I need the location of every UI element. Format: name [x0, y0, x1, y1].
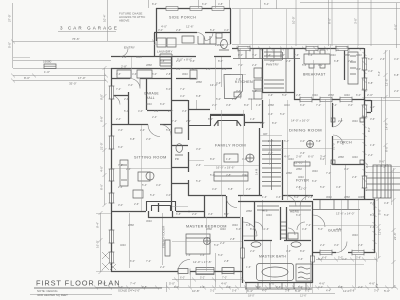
svg-text:6'-0": 6'-0" [394, 24, 398, 30]
wall guest right [374, 199, 376, 253]
svg-text:4040: 4040 [352, 155, 358, 159]
svg-text:14'-0" x 16'-0": 14'-0" x 16'-0" [291, 119, 309, 123]
right wall hatch [236, 47, 377, 254]
closet rods his hers [257, 206, 311, 210]
door sitting2 [160, 125, 171, 136]
svg-text:14'-0": 14'-0" [385, 122, 389, 130]
steps right [373, 165, 391, 198]
svg-text:6'-0": 6'-0" [118, 145, 123, 149]
bath walls emphasize [112, 48, 365, 283]
dim inner verticals [130, 165, 377, 287]
svg-text:3'-0": 3'-0" [354, 18, 358, 24]
wall pantry left [262, 48, 264, 93]
svg-text:5'-0": 5'-0" [210, 173, 215, 177]
entry steps bottom [245, 283, 312, 289]
vanity sinks [251, 242, 301, 247]
dim ticks left verticals [99, 66, 107, 274]
conline bottom v [179, 272, 313, 293]
svg-text:6'-8": 6'-8" [338, 285, 343, 289]
svg-text:7'-2": 7'-2" [172, 119, 177, 123]
door hers closet [297, 222, 305, 230]
dim top right border [300, 2, 400, 4]
svg-text:2'-6": 2'-6" [268, 139, 273, 143]
wall family bottom [188, 195, 262, 197]
conline v sitting [141, 125, 143, 211]
svg-text:5'-4": 5'-4" [377, 71, 381, 76]
family table [224, 52, 358, 162]
wall garage back long [111, 68, 232, 70]
title underline [34, 287, 162, 289]
wall hall master top [188, 196, 313, 218]
svg-text:2'-4": 2'-4" [118, 185, 123, 189]
dim vline garage left [12, 3, 14, 68]
door sitting [148, 125, 160, 137]
door porch [333, 135, 343, 145]
door family hall [226, 197, 237, 208]
svg-text:2'-6": 2'-6" [286, 59, 291, 63]
wall closet shelfcol [281, 207, 287, 240]
svg-text:2'-0": 2'-0" [212, 103, 217, 107]
dim ticks bottom left [94, 286, 159, 290]
stair treads [262, 139, 281, 190]
svg-text:6'-2": 6'-2" [305, 289, 310, 293]
svg-text:3040: 3040 [182, 72, 188, 76]
svg-text:35'-0": 35'-0" [69, 82, 77, 86]
svg-text:4'-6": 4'-6" [384, 201, 389, 205]
svg-text:8'-0": 8'-0" [218, 59, 223, 63]
svg-text:6'-0": 6'-0" [356, 93, 361, 97]
porch columns [331, 118, 364, 164]
svg-text:2'-0": 2'-0" [348, 59, 353, 63]
svg-text:2'-6": 2'-6" [294, 53, 299, 57]
svg-text:6'-8": 6'-8" [228, 187, 233, 191]
svg-text:4'-0": 4'-0" [368, 69, 373, 73]
svg-text:2'-8": 2'-8" [166, 72, 171, 76]
svg-text:5'-0": 5'-0" [294, 195, 299, 199]
svg-text:21'-0": 21'-0" [100, 142, 104, 150]
window at y=8.5 x=166 [166, 7, 178, 11]
svg-text:4'-4": 4'-4" [326, 289, 331, 293]
window at x=364.5 y=58 [363, 58, 367, 70]
svg-text:16'-0": 16'-0" [332, 142, 336, 150]
dim terrace bottom [232, 44, 400, 46]
wall bath block left [242, 217, 244, 283]
svg-text:6'-0": 6'-0" [308, 155, 314, 159]
svg-text:3'-0": 3'-0" [222, 67, 227, 71]
svg-text:4'-6": 4'-6" [226, 285, 231, 289]
guest closet row [313, 200, 360, 210]
svg-text:4'-0": 4'-0" [180, 94, 185, 98]
svg-text:2'-4": 2'-4" [152, 115, 157, 119]
svg-text:5'-4": 5'-4" [368, 57, 373, 61]
svg-text:3040: 3040 [330, 53, 336, 57]
conline h extra1 [172, 206, 188, 208]
svg-text:PORCH: PORCH [337, 141, 352, 145]
svg-text:5'-4": 5'-4" [150, 193, 155, 197]
svg-text:10'-4": 10'-4" [103, 14, 107, 22]
svg-text:2868: 2868 [268, 103, 274, 107]
svg-text:4'-6": 4'-6" [200, 253, 205, 257]
svg-text:1'-6": 1'-6" [262, 195, 267, 199]
wall side porch top [156, 8, 231, 10]
svg-text:8'-0": 8'-0" [244, 103, 249, 107]
svg-text:2'-6": 2'-6" [196, 163, 201, 167]
svg-text:4'-6": 4'-6" [216, 81, 221, 85]
svg-text:2868: 2868 [344, 53, 350, 57]
wall kitchen left upper [230, 8, 232, 44]
svg-text:2'-8": 2'-8" [308, 195, 313, 199]
svg-text:16'-0": 16'-0" [96, 240, 100, 248]
svg-text:LAUNDRY: LAUNDRY [157, 50, 173, 54]
wall hall right of dressing [172, 95, 189, 211]
window at y=252.5 x=352 [352, 251, 364, 255]
deck planks right [366, 178, 400, 190]
shower lines [298, 267, 310, 279]
svg-text:3'-0": 3'-0" [118, 128, 123, 132]
svg-text:4'-0": 4'-0" [262, 289, 267, 293]
island sink [234, 92, 241, 97]
svg-text:3'-6": 3'-6" [370, 117, 375, 121]
svg-text:3'-6": 3'-6" [226, 103, 231, 107]
svg-text:2'-8": 2'-8" [230, 237, 235, 241]
svg-text:5'-4": 5'-4" [302, 63, 307, 67]
wall stair right [282, 140, 284, 200]
dim row1 under garage [13, 75, 106, 77]
svg-text:3'-0": 3'-0" [344, 167, 349, 171]
dim bottom chain left [96, 287, 165, 289]
svg-text:3'-6": 3'-6" [300, 151, 305, 155]
wall right exterior [364, 48, 366, 199]
powder sink [216, 33, 222, 38]
svg-text:3040: 3040 [242, 173, 248, 177]
svg-text:2'-0": 2'-0" [176, 59, 181, 63]
svg-text:11'-0": 11'-0" [378, 228, 382, 235]
wall closet mid [111, 79, 171, 125]
wall pantry bottom [262, 92, 294, 94]
svg-text:12'-6": 12'-6" [385, 78, 389, 86]
svg-text:2'-0": 2'-0" [246, 187, 251, 191]
window at x=242.5 y=248 [241, 248, 245, 258]
svg-text:2'-8": 2'-8" [296, 185, 301, 189]
svg-text:4'-0": 4'-0" [318, 63, 323, 67]
door entry [120, 49, 128, 57]
svg-text:SITTING ROOM: SITTING ROOM [134, 156, 167, 160]
svg-text:6'-8": 6'-8" [246, 223, 251, 227]
window at y=99.5 x=320 [320, 98, 332, 102]
conline h dining low [262, 148, 332, 150]
svg-text:2'-0": 2'-0" [250, 249, 255, 253]
wall guest bottom [313, 252, 375, 254]
svg-text:2868: 2868 [128, 223, 134, 227]
svg-text:6'-0": 6'-0" [130, 259, 135, 263]
door guest [313, 215, 325, 227]
conline v family [222, 110, 244, 196]
svg-text:5'-6": 5'-6" [378, 209, 382, 215]
door mud hall [197, 33, 205, 41]
wall entry hall left [154, 33, 156, 57]
svg-text:3'-0": 3'-0" [118, 203, 123, 207]
wall porch bottom [332, 164, 364, 166]
window at x=111.5 y=86 [110, 86, 114, 99]
svg-text:8'-0": 8'-0" [210, 157, 215, 161]
wall kitchen inner [188, 109, 210, 111]
svg-text:2'-6": 2'-6" [134, 202, 139, 206]
svg-text:5'-4": 5'-4" [284, 139, 289, 143]
svg-text:6'-0": 6'-0" [166, 87, 171, 91]
svg-text:3'-0": 3'-0" [128, 83, 133, 87]
dim garage width line [13, 41, 154, 43]
conline h mud [154, 44, 231, 46]
svg-text:5'-8": 5'-8" [350, 289, 355, 293]
svg-text:5'-4": 5'-4" [308, 53, 313, 57]
svg-text:4040: 4040 [120, 243, 126, 247]
garage steps [160, 54, 172, 66]
dim ticks bottom chain [166, 286, 398, 290]
svg-text:5'-4": 5'-4" [166, 128, 171, 132]
svg-text:HALL: HALL [146, 96, 155, 100]
wall dressing row top [111, 78, 196, 80]
svg-text:7'-2": 7'-2" [252, 53, 257, 57]
wall bath bottom bay [245, 282, 312, 284]
svg-text:2'-8": 2'-8" [224, 259, 229, 263]
x-marks lower left wall [102, 252, 116, 270]
svg-text:4040: 4040 [356, 53, 362, 57]
svg-text:8'-6": 8'-6" [328, 18, 332, 24]
conline right deck v [374, 165, 392, 210]
breakfast table [304, 50, 330, 68]
conline v guest [342, 200, 359, 252]
dim inner verticals 2 [197, 57, 346, 200]
svg-text:5'-0": 5'-0" [218, 253, 223, 257]
svg-text:3'-0": 3'-0" [280, 53, 285, 57]
window at y=252.5 x=320 [320, 251, 332, 255]
window at x=111.5 y=193 [110, 193, 114, 203]
conline h family [204, 165, 259, 167]
wall closet his left [254, 201, 256, 240]
wall master bottom [111, 271, 243, 273]
fan master [204, 238, 211, 245]
svg-text:5'-2": 5'-2" [200, 276, 205, 280]
svg-text:2'-6": 2'-6" [126, 167, 131, 171]
conline v dining b [325, 99, 327, 165]
conline h sitting [111, 168, 171, 170]
svg-text:2868: 2868 [328, 93, 334, 97]
svg-text:2'-0": 2'-0" [367, 93, 373, 97]
svg-text:FIRST FLOOR PLAN: FIRST FLOOR PLAN [36, 279, 121, 288]
svg-text:4'-6": 4'-6" [132, 72, 137, 76]
svg-text:6'-8": 6'-8" [130, 137, 135, 141]
tick title chain [166, 282, 168, 292]
svg-text:2'-8": 2'-8" [232, 97, 237, 101]
svg-text:6'-0": 6'-0" [236, 227, 241, 231]
window jamb ticks [109, 46, 368, 275]
svg-text:4'-6": 4'-6" [298, 257, 303, 261]
svg-text:7'-2": 7'-2" [326, 171, 331, 175]
powder toilet [219, 39, 229, 50]
svg-text:21'-6": 21'-6" [393, 232, 397, 240]
conline top kitchen v [253, 9, 287, 48]
underline garage label [58, 31, 116, 33]
svg-text:3040: 3040 [312, 93, 318, 97]
svg-text:7'-4": 7'-4" [130, 282, 136, 286]
svg-text:6'-8": 6'-8" [394, 73, 399, 77]
dim ticks garage rows [11, 40, 156, 83]
svg-text:6'-8": 6'-8" [100, 116, 104, 122]
svg-text:2'-8": 2'-8" [336, 227, 341, 231]
svg-text:12'-0" x 17'-8": 12'-0" x 17'-8" [193, 260, 211, 264]
dim vline master-left [100, 213, 102, 272]
svg-text:1'-6": 1'-6" [264, 227, 269, 231]
svg-text:6'-0": 6'-0" [320, 157, 325, 161]
dim row2 under garage [13, 80, 106, 82]
interior fixtures [44, 33, 400, 289]
svg-text:2868: 2868 [146, 63, 152, 67]
svg-text:4'-0": 4'-0" [166, 193, 171, 197]
svg-text:9'-6": 9'-6" [379, 160, 385, 164]
dim left wing horiz [13, 60, 111, 62]
svg-text:8'-0": 8'-0" [224, 212, 229, 216]
conline h guest [313, 225, 374, 227]
butler shelves [264, 80, 284, 88]
door arcs [111, 33, 347, 272]
svg-text:7'-2": 7'-2" [190, 67, 195, 71]
svg-text:4'-0": 4'-0" [156, 183, 161, 187]
family sofa [214, 172, 248, 181]
svg-text:7'-2": 7'-2" [316, 103, 321, 107]
door powder [205, 33, 213, 41]
conline v master [206, 217, 208, 271]
svg-text:4'-6": 4'-6" [268, 112, 273, 116]
walls [111, 8, 375, 283]
wall sitting bottom [111, 211, 190, 213]
window at y=271.5 x=196 [196, 270, 214, 274]
svg-text:PWDR: PWDR [215, 43, 224, 47]
conline h kitchen2 [231, 74, 246, 76]
svg-text:2'-4": 2'-4" [252, 63, 257, 67]
svg-text:MASTER BATH: MASTER BATH [259, 255, 286, 259]
svg-text:FRENCH DOOR: FRENCH DOOR [162, 225, 166, 248]
svg-text:3'-0": 3'-0" [256, 285, 261, 289]
dim terrace top edge [232, 8, 400, 10]
svg-text:5'-0": 5'-0" [384, 289, 390, 293]
svg-text:6'-0": 6'-0" [176, 67, 181, 71]
wall right bump [364, 100, 372, 113]
dim bottom chain [165, 287, 396, 289]
svg-text:SIDE PORCH: SIDE PORCH [169, 16, 196, 20]
svg-text:3'-0": 3'-0" [196, 147, 201, 151]
svg-text:PR: PR [175, 157, 179, 161]
svg-text:5'-4": 5'-4" [210, 28, 215, 32]
svg-text:FOYER: FOYER [296, 179, 309, 183]
svg-text:3040: 3040 [312, 169, 318, 173]
svg-text:8'-0": 8'-0" [208, 117, 213, 121]
foyer case [294, 162, 310, 166]
svg-text:5'-4": 5'-4" [124, 109, 129, 113]
window at y=48.5 x=336 [336, 47, 348, 51]
conline v kitchen [240, 48, 242, 99]
windows [110, 7, 367, 274]
svg-text:5'-6": 5'-6" [232, 289, 237, 293]
wall entry hall bottom [111, 56, 154, 58]
svg-text:5'-0": 5'-0" [216, 97, 221, 101]
svg-text:27'-0": 27'-0" [8, 14, 12, 22]
conline v garage hall [131, 57, 133, 78]
door master entry [243, 222, 257, 236]
svg-text:5'-4": 5'-4" [196, 179, 201, 183]
svg-text:5'-0": 5'-0" [384, 213, 389, 217]
svg-text:8'-0": 8'-0" [252, 89, 257, 93]
wall sitting top [111, 124, 172, 126]
dim garage leaders [13, 68, 111, 70]
svg-text:4040: 4040 [220, 227, 226, 231]
svg-text:FAMILY ROOM: FAMILY ROOM [215, 143, 246, 148]
svg-text:2'-8": 2'-8" [142, 285, 147, 289]
svg-text:3'-8": 3'-8" [285, 289, 290, 293]
svg-text:6'-8": 6'-8" [154, 109, 159, 113]
svg-text:3'-0": 3'-0" [270, 59, 275, 63]
dim ticks right margin [377, 50, 396, 289]
svg-text:4'-6": 4'-6" [276, 195, 281, 199]
dim bottom tier2 [215, 293, 335, 295]
svg-text:4'-6": 4'-6" [242, 157, 247, 161]
svg-text:16'-0" x 19'-6": 16'-0" x 19'-6" [216, 166, 234, 170]
master tub [257, 264, 294, 281]
svg-text:6'-8": 6'-8" [334, 59, 339, 63]
door garage entry [130, 79, 140, 89]
svg-text:2'-4": 2'-4" [186, 119, 191, 123]
svg-text:2'-6": 2'-6" [176, 28, 181, 32]
svg-text:1'-6": 1'-6" [246, 265, 251, 269]
svg-text:3'-0": 3'-0" [334, 243, 339, 247]
window sill garage [44, 64, 56, 69]
svg-text:DINING ROOM: DINING ROOM [289, 128, 322, 133]
fireplace family room [188, 115, 262, 126]
svg-text:2'-4": 2'-4" [368, 153, 373, 157]
svg-text:3'-6": 3'-6" [260, 121, 265, 125]
svg-text:2'-4": 2'-4" [332, 103, 337, 107]
wall master top [165, 217, 240, 219]
svg-text:2'-0": 2'-0" [168, 109, 173, 113]
master window boxes [178, 268, 234, 275]
wall guest top [313, 199, 375, 201]
sitting table [146, 172, 154, 180]
svg-text:4'-6": 4'-6" [268, 93, 273, 97]
svg-text:3'-0": 3'-0" [374, 289, 379, 293]
conline stair land [260, 135, 282, 137]
svg-text:2'-4": 2'-4" [160, 265, 165, 269]
svg-text:ENTRY: ENTRY [124, 46, 135, 50]
svg-text:2'-0": 2'-0" [394, 89, 399, 93]
fan dining [307, 141, 314, 148]
svg-text:8'-0": 8'-0" [385, 146, 389, 152]
svg-text:3'-6": 3'-6" [190, 59, 195, 63]
svg-text:5'-8": 5'-8" [295, 289, 301, 293]
wall house left exterior [111, 68, 113, 272]
tub basin [262, 267, 288, 277]
window at x=111.5 y=252 [110, 252, 114, 263]
svg-text:12'-6": 12'-6" [300, 293, 307, 297]
svg-text:3'-6": 3'-6" [356, 67, 361, 71]
svg-text:5'-0": 5'-0" [280, 112, 285, 116]
svg-text:16080: 16080 [43, 60, 52, 64]
svg-text:13'-6" x 14'-0": 13'-6" x 14'-0" [336, 212, 354, 216]
svg-text:5'-4": 5'-4" [142, 183, 147, 187]
svg-text:2868: 2868 [344, 195, 350, 199]
dim right margin horiz [364, 98, 400, 173]
svg-text:4040: 4040 [344, 93, 350, 97]
stool wc [288, 233, 298, 239]
window at y=8.5 x=190 [190, 7, 202, 11]
